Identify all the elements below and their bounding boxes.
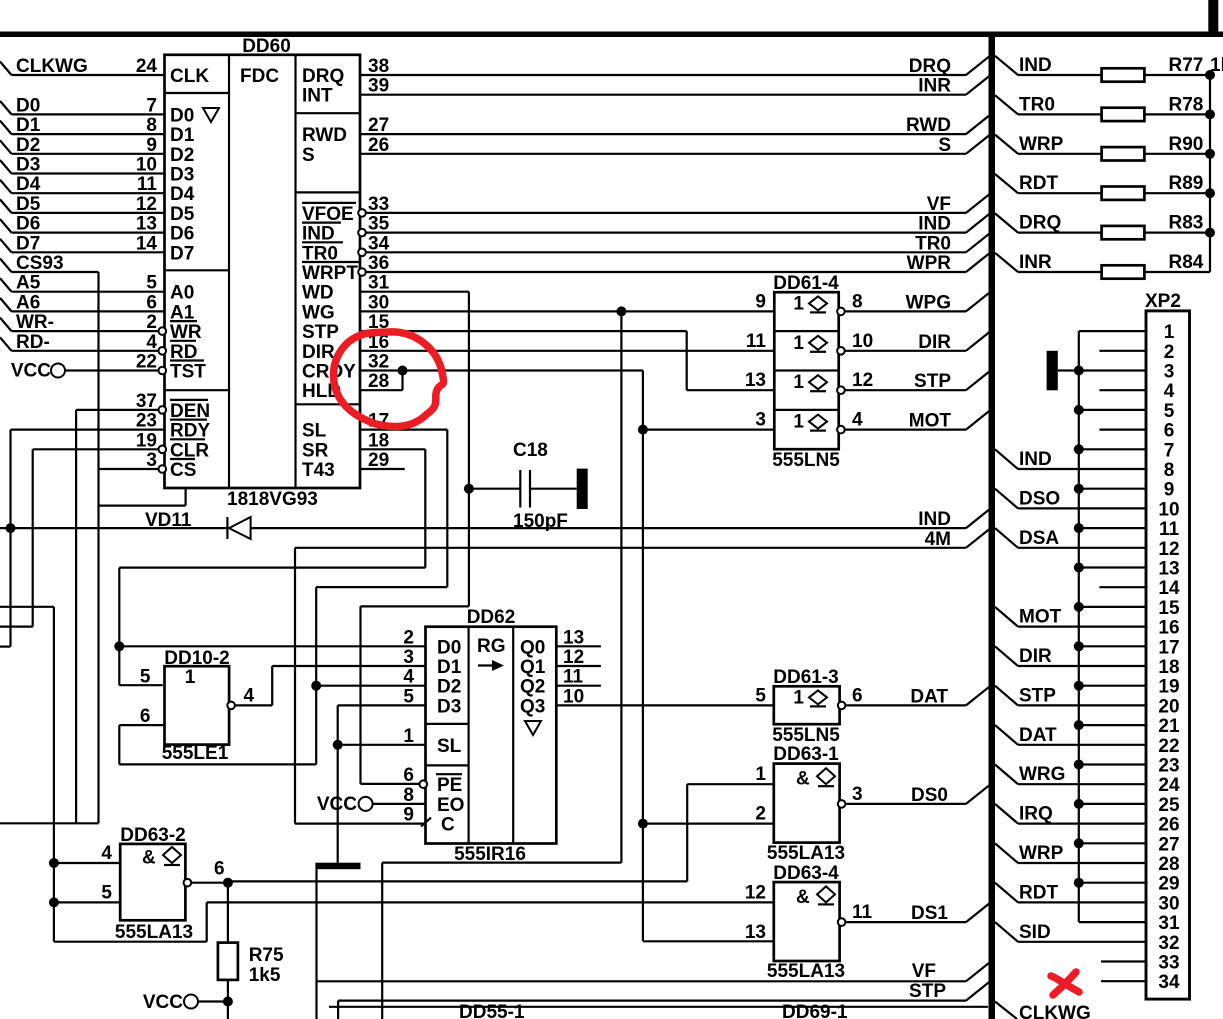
svg-text:DIR: DIR [918, 332, 951, 353]
svg-text:D3: D3 [437, 696, 461, 717]
svg-text:EO: EO [437, 795, 464, 816]
svg-text:A6: A6 [16, 292, 40, 313]
svg-text:IND: IND [918, 214, 951, 235]
svg-text:11: 11 [137, 174, 158, 195]
svg-text:29: 29 [1158, 874, 1179, 895]
svg-text:DS1: DS1 [911, 903, 948, 924]
svg-text:11: 11 [746, 331, 767, 352]
svg-text:WRPT: WRPT [302, 263, 358, 284]
svg-text:23: 23 [136, 411, 157, 432]
svg-text:D1: D1 [16, 115, 41, 136]
node D0 input wire with pin 7 [0, 101, 12, 115]
wire DD62 D1 input pin 3 from DD10-2 output [272, 665, 425, 667]
svg-text:21: 21 [1158, 716, 1180, 737]
resistor R89 pull-up on RDT [995, 174, 1018, 193]
node junction CRDY/DS0 input [638, 819, 648, 829]
node DIR wire from bus to XP2 pin 18 [995, 646, 1018, 666]
resistor R83 pull-up on DRQ [995, 213, 1018, 232]
IC DD62 left column dividers [426, 723, 469, 725]
svg-text:8: 8 [403, 785, 414, 806]
svg-text:DD63-4: DD63-4 [773, 863, 839, 884]
wire ground bar to VF row [315, 869, 317, 1019]
wire XP2 unconnected stub pin 33 [1101, 960, 1146, 962]
node pull-up rail junction dots [1205, 70, 1215, 80]
svg-text:D3: D3 [170, 165, 194, 186]
svg-text:26: 26 [1158, 815, 1179, 836]
wire DD62 D2 input pin 4 [316, 685, 425, 687]
svg-text:D4: D4 [16, 174, 41, 195]
svg-text:30: 30 [368, 292, 389, 313]
svg-text:25: 25 [1158, 795, 1180, 816]
svg-text:555LN5: 555LN5 [772, 450, 840, 471]
node MOT wire from bus to XP2 pin 16 [995, 607, 1018, 627]
terminal bar at XP2 pin 3 [1047, 351, 1058, 391]
svg-text:D2: D2 [170, 145, 194, 166]
svg-text:WPR: WPR [907, 253, 952, 274]
svg-text:11: 11 [1159, 519, 1180, 540]
node IND wire from bus to XP2 pin 8 [995, 449, 1018, 469]
svg-text:STP: STP [302, 322, 339, 343]
resistor R84 pull-up on INR [995, 253, 1018, 272]
svg-text:DD10-2: DD10-2 [164, 648, 229, 669]
svg-text:A5: A5 [16, 273, 41, 294]
svg-text:FDC: FDC [240, 66, 279, 87]
node DS0 output wire to bus [846, 803, 966, 805]
svg-text:15: 15 [1158, 598, 1180, 619]
svg-text:27: 27 [368, 115, 389, 136]
svg-text:13: 13 [563, 627, 584, 648]
svg-text:1: 1 [793, 293, 804, 314]
node MOT output wire to bus [845, 429, 966, 431]
svg-text:R84: R84 [1169, 252, 1204, 273]
svg-text:18: 18 [368, 430, 389, 451]
svg-text:VF: VF [912, 961, 936, 982]
svg-text:CS93: CS93 [16, 253, 64, 274]
wire DEN pin 37 [76, 409, 159, 411]
node junction RDY/IND row [6, 523, 16, 533]
wire XP2 odd-pin common rail [1078, 331, 1080, 922]
wire DEN net vertical [75, 410, 77, 823]
node D6 input wire with pin 13 [0, 219, 12, 233]
svg-text:555IR16: 555IR16 [454, 844, 526, 865]
svg-text:D0: D0 [170, 105, 194, 126]
svg-text:DIR: DIR [302, 342, 335, 363]
svg-text:MOT: MOT [909, 411, 952, 432]
svg-text:SID: SID [1019, 922, 1051, 943]
wire DD62 SL input pin 1 [338, 744, 426, 746]
wire RDY pin 23 [11, 429, 165, 431]
svg-text:1: 1 [403, 726, 414, 747]
svg-text:DS0: DS0 [911, 785, 948, 806]
wire CS93/CS net vertical to left edge [97, 272, 99, 823]
svg-text:8: 8 [852, 291, 863, 312]
node junction DD63-2 pin4 [49, 858, 59, 868]
svg-text:6: 6 [403, 765, 414, 786]
svg-text:D2: D2 [16, 135, 40, 156]
svg-text:S: S [938, 135, 951, 156]
svg-text:WR-: WR- [16, 312, 54, 333]
svg-text:10: 10 [136, 155, 157, 176]
svg-text:D6: D6 [170, 224, 194, 245]
svg-text:555LA13: 555LA13 [767, 843, 845, 864]
svg-text:6: 6 [146, 292, 157, 313]
node DAT wire from bus to XP2 pin 22 [995, 725, 1018, 745]
svg-text:13: 13 [745, 922, 766, 943]
svg-text:24: 24 [136, 56, 158, 77]
svg-text:20: 20 [1158, 696, 1179, 717]
svg-text:2: 2 [755, 804, 766, 825]
svg-text:37: 37 [136, 391, 157, 412]
node junction SR/D0 [114, 641, 124, 651]
svg-text:D3: D3 [16, 155, 40, 176]
svg-text:TST: TST [170, 362, 206, 383]
svg-text:22: 22 [136, 352, 157, 373]
node WRP wire from bus to XP2 pin 28 [995, 843, 1018, 863]
node junction CRDY/MOT [638, 425, 648, 435]
wire DD62 Q0 output stub pin 13 [556, 645, 601, 647]
svg-text:IND: IND [1019, 55, 1052, 76]
node CLKWG input wire with pin 24 [0, 62, 12, 76]
svg-text:5: 5 [146, 273, 157, 294]
svg-text:27: 27 [1158, 834, 1179, 855]
svg-text:9: 9 [403, 805, 414, 826]
node A6 input wire with pin 6 [0, 298, 12, 312]
svg-text:4: 4 [146, 332, 157, 353]
svg-text:DD60: DD60 [242, 36, 291, 57]
svg-text:1k5: 1k5 [249, 965, 281, 986]
svg-text:33: 33 [1158, 953, 1179, 974]
resistor R75 1k5 [227, 883, 229, 943]
svg-text:IRQ: IRQ [1019, 804, 1053, 825]
wire 4M row to DD62 pin 9 clock [295, 547, 966, 549]
node D2 input wire with pin 9 [0, 140, 12, 154]
svg-text:R75: R75 [249, 945, 284, 966]
svg-text:Q3: Q3 [520, 696, 545, 717]
svg-text:6: 6 [214, 859, 225, 880]
svg-text:10: 10 [852, 331, 873, 352]
wire IND row from left edge [0, 527, 227, 529]
svg-text:DRQ: DRQ [302, 66, 344, 87]
svg-text:A0: A0 [170, 283, 194, 304]
svg-text:10: 10 [1158, 499, 1179, 520]
node D3 input wire with pin 10 [0, 160, 12, 174]
svg-text:16: 16 [1158, 618, 1179, 639]
wire XP2 unconnected stub pin 2 [1099, 350, 1146, 352]
node DSO wire from bus to XP2 pin 10 [995, 489, 1018, 509]
annotation red circle around pins 32/28 [334, 332, 444, 427]
svg-text:39: 39 [368, 76, 389, 97]
svg-text:555LE1: 555LE1 [162, 743, 229, 764]
wire DD62 D0 input pin 2 [119, 645, 425, 647]
svg-text:D1: D1 [437, 657, 462, 678]
svg-text:VCC: VCC [143, 992, 183, 1013]
node junction WG [616, 306, 626, 316]
power bus thick top line [0, 32, 1223, 38]
wire DD62 D3 input pin 5 to ground [338, 704, 426, 706]
wire DD63-2 input feed from left edge [0, 606, 54, 608]
svg-text:30: 30 [1158, 893, 1179, 914]
svg-text:5: 5 [101, 882, 112, 903]
svg-text:RD-: RD- [16, 332, 50, 353]
svg-text:33: 33 [368, 194, 389, 215]
svg-text:D7: D7 [170, 243, 194, 264]
svg-text:RWD: RWD [302, 125, 347, 146]
svg-text:DRQ: DRQ [909, 56, 951, 77]
svg-text:7: 7 [146, 95, 157, 116]
svg-text:C18: C18 [513, 440, 548, 461]
node CLKWG wire from bus at page bottom [995, 1002, 1017, 1019]
svg-text:8: 8 [1164, 460, 1175, 481]
svg-text:D5: D5 [16, 194, 41, 215]
svg-text:5: 5 [403, 686, 414, 707]
svg-text:555LA13: 555LA13 [767, 961, 845, 982]
ground bar [315, 863, 360, 870]
svg-text:19: 19 [1158, 677, 1179, 698]
node WPG output wire to bus [845, 310, 966, 312]
wire DD62 Q3 output pin 10 to DD61-3 [556, 704, 774, 706]
svg-text:VD11: VD11 [145, 510, 192, 531]
svg-text:DAT: DAT [1019, 725, 1057, 746]
svg-text:13: 13 [136, 214, 157, 235]
svg-text:SR: SR [302, 440, 329, 461]
svg-text:9: 9 [146, 135, 157, 156]
svg-text:R77: R77 [1169, 55, 1204, 76]
svg-text:14: 14 [136, 233, 158, 254]
svg-text:D6: D6 [16, 214, 40, 235]
node junction R75/VCC [223, 997, 233, 1007]
svg-text:1: 1 [1164, 322, 1175, 343]
svg-text:38: 38 [368, 56, 389, 77]
svg-text:CS: CS [170, 460, 196, 481]
svg-text:5: 5 [1164, 401, 1175, 422]
node junction D3/SL ground [333, 740, 343, 750]
op inverter DD61-3 outline [774, 686, 840, 724]
annotation red X near XP2 pins 33/34 [1051, 976, 1079, 992]
svg-text:1: 1 [793, 687, 804, 708]
svg-text:D7: D7 [16, 233, 40, 254]
resistor R90 pull-up on WRP [995, 135, 1018, 154]
svg-text:DD62: DD62 [467, 607, 516, 628]
IC DD60 left column dividers [165, 92, 230, 94]
connector XP2 outline [1146, 311, 1190, 999]
svg-text:DIR: DIR [1019, 646, 1052, 667]
svg-text:D0: D0 [437, 637, 461, 658]
svg-text:INR: INR [1019, 252, 1052, 273]
svg-text:MOT: MOT [1019, 607, 1062, 628]
svg-text:4: 4 [852, 410, 863, 431]
node CS93 input wire [0, 259, 12, 273]
svg-text:D4: D4 [170, 184, 195, 205]
svg-text:29: 29 [368, 450, 389, 471]
node A5 input wire with pin 5 [0, 278, 12, 292]
node DSA wire from bus to XP2 pin 12 [995, 528, 1018, 548]
resistor R77 pull-up on IND [995, 56, 1018, 75]
node DIR output wire to bus [845, 350, 966, 352]
svg-text:6: 6 [140, 706, 151, 727]
node STP output wire to bus [845, 389, 966, 391]
svg-text:4: 4 [1164, 381, 1175, 402]
node RDT wire from bus to XP2 pin 30 [995, 883, 1018, 903]
wire RDY net to left edge [9, 430, 11, 647]
terminal bar at C18 [577, 469, 588, 509]
svg-text:8: 8 [146, 115, 157, 136]
gate DD63-4 output pin 11 bubble [838, 918, 846, 926]
node junction CRDY/HLD [398, 366, 408, 376]
svg-text:WD: WD [302, 283, 334, 304]
svg-text:IND: IND [1019, 449, 1052, 470]
op gate DD63-2 555LA13 NAND outline [120, 844, 185, 920]
svg-text:4: 4 [403, 667, 414, 688]
wire DD63-2 input pin 4 [54, 862, 120, 864]
svg-text:3: 3 [403, 647, 414, 668]
svg-text:TR0: TR0 [915, 233, 951, 254]
svg-text:23: 23 [1158, 756, 1179, 777]
wire XP2 unconnected stub pin 14 [1099, 586, 1146, 588]
svg-text:CLKWG: CLKWG [16, 56, 88, 77]
svg-text:INR: INR [918, 76, 951, 97]
svg-text:&: & [142, 848, 156, 869]
svg-text:Q1: Q1 [520, 657, 546, 678]
node junction DD63-2 output/R75 [223, 878, 233, 888]
svg-text:RDT: RDT [1019, 882, 1058, 903]
svg-text:11: 11 [852, 902, 873, 923]
wire DD63-2 input pin 5 [54, 901, 120, 903]
svg-text:SL: SL [302, 421, 327, 442]
svg-text:19: 19 [136, 430, 157, 451]
node junction DD63-2 pin5 [49, 897, 59, 907]
svg-text:13: 13 [1158, 559, 1179, 580]
svg-text:S: S [302, 145, 315, 166]
svg-text:555LA13: 555LA13 [115, 922, 193, 943]
svg-text:17: 17 [1158, 637, 1179, 658]
svg-text:13: 13 [745, 370, 766, 391]
svg-text:Q0: Q0 [520, 637, 545, 658]
svg-text:31: 31 [368, 273, 390, 294]
svg-text:T43: T43 [302, 460, 335, 481]
svg-text:VCC: VCC [11, 361, 51, 382]
wire XP2 odd pin connections [1079, 330, 1146, 332]
node D7 input wire with pin 14 [0, 239, 12, 253]
svg-text:CLKWG: CLKWG [1019, 1003, 1091, 1019]
svg-text:4: 4 [101, 843, 112, 864]
svg-text:RWD: RWD [906, 115, 951, 136]
wire CLR pin 19 [33, 448, 159, 450]
wire CLR net to left edge [32, 449, 34, 626]
gate DD10-2 output pin 4 bubble [227, 702, 235, 710]
IC DD62 open-output triangle [525, 721, 541, 735]
svg-text:C: C [441, 815, 455, 836]
svg-text:INT: INT [302, 86, 333, 107]
svg-text:1: 1 [793, 372, 804, 393]
svg-text:WRP: WRP [1019, 843, 1064, 864]
svg-text:555LN5: 555LN5 [772, 725, 840, 746]
svg-text:STP: STP [909, 981, 946, 1002]
node WR- input wire with pin 2 and bubble [0, 318, 12, 332]
svg-text:3: 3 [755, 410, 766, 431]
svg-text:RDT: RDT [1019, 173, 1058, 194]
svg-text:35: 35 [368, 214, 390, 235]
capacitor C18 150pF [469, 488, 520, 490]
svg-text:WRP: WRP [1019, 134, 1064, 155]
node DS1 output wire to bus [846, 921, 966, 923]
svg-text:Q2: Q2 [520, 677, 545, 698]
svg-text:STP: STP [1019, 685, 1056, 706]
svg-text:D0: D0 [16, 95, 40, 116]
svg-text:R89: R89 [1169, 173, 1204, 194]
svg-text:12: 12 [852, 370, 873, 391]
svg-text:1k: 1k [1210, 55, 1223, 76]
svg-text:2: 2 [146, 312, 157, 333]
svg-text:D5: D5 [170, 204, 195, 225]
node DAT output wire to bus [846, 704, 966, 706]
svg-text:R90: R90 [1169, 134, 1204, 155]
svg-text:6: 6 [1164, 421, 1175, 442]
svg-text:31: 31 [1158, 913, 1180, 934]
svg-text:DRQ: DRQ [1019, 213, 1061, 234]
svg-text:36: 36 [368, 253, 389, 274]
wire XP2 unconnected stub pin 34 [1101, 980, 1146, 982]
svg-text:DD69-1: DD69-1 [782, 1002, 848, 1019]
svg-text:STP: STP [914, 371, 951, 392]
svg-text:34: 34 [1158, 972, 1180, 993]
svg-text:VF: VF [927, 194, 951, 215]
gate DD63-1 output pin 3 bubble [838, 800, 846, 808]
node RD- input wire with pin 4 and bubble [0, 337, 12, 351]
svg-text:2: 2 [403, 627, 414, 648]
op gate DD63-1 555LA13 NAND outline [774, 764, 840, 843]
svg-text:10: 10 [563, 686, 584, 707]
svg-text:VCC: VCC [317, 794, 357, 815]
svg-text:&: & [796, 887, 810, 908]
wire pull-up common rail [1209, 75, 1211, 272]
node D4 input wire with pin 11 [0, 180, 12, 194]
wire XP2 unconnected stub pin 4 [1099, 389, 1146, 391]
svg-text:3: 3 [146, 450, 157, 471]
svg-text:IND: IND [918, 509, 951, 530]
node WRG wire from bus to XP2 pin 24 [995, 765, 1018, 785]
svg-text:DD61-4: DD61-4 [773, 273, 839, 294]
svg-text:DD63-1: DD63-1 [773, 744, 839, 765]
svg-text:D2: D2 [437, 677, 461, 698]
svg-text:24: 24 [1158, 775, 1180, 796]
wire DD60 bottom stub to CS net [185, 488, 187, 506]
vertical bus line (thick) [989, 32, 996, 1019]
svg-text:3: 3 [1164, 362, 1175, 383]
svg-text:14: 14 [1158, 578, 1180, 599]
svg-text:RG: RG [477, 636, 506, 657]
svg-text:22: 22 [1158, 736, 1179, 757]
IC DD60 right column dividers [296, 112, 361, 114]
svg-text:DAT: DAT [910, 686, 948, 707]
wire DD63-2 output to junction [192, 882, 228, 884]
svg-text:XP2: XP2 [1145, 291, 1181, 312]
gate DD63-2 output pin 6 bubble [184, 879, 192, 887]
node IRQ wire from bus to XP2 pin 26 [995, 804, 1018, 824]
svg-text:12: 12 [563, 647, 584, 668]
svg-text:DD63-2: DD63-2 [120, 825, 185, 846]
op IC DD61-4 quad inverter outline [774, 292, 838, 449]
op IC DD55-1 / DD69-1 top edge (cut at page bottom) [329, 1006, 988, 1008]
op gate DD63-4 555LA13 NAND outline [774, 882, 840, 961]
svg-text:R83: R83 [1169, 213, 1204, 234]
svg-text:CLK: CLK [170, 66, 209, 87]
node junction WD/C18 [464, 484, 474, 494]
node STP bottom wire to bus [337, 1001, 339, 1019]
svg-text:12: 12 [1158, 539, 1179, 560]
svg-text:12: 12 [136, 194, 157, 215]
svg-text:&: & [796, 769, 810, 790]
wire DD62 Q1 output stub pin 12 [556, 665, 601, 667]
